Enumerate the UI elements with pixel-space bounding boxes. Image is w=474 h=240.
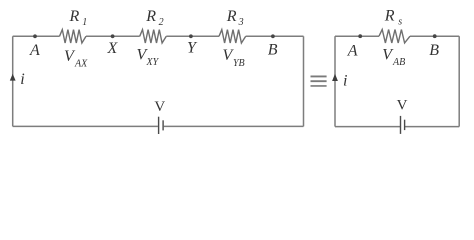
svg-text:i: i <box>20 71 24 88</box>
node A right <box>358 34 362 38</box>
wire right-circuit bottom left <box>335 126 400 128</box>
svg-text:A: A <box>347 43 358 60</box>
wire left-circuit bottom right <box>164 125 304 127</box>
svg-text:R: R <box>384 7 395 24</box>
wire left-circuit left vertical <box>12 36 14 126</box>
svg-text:i: i <box>343 73 347 90</box>
wire left-circuit right vertical <box>303 36 305 126</box>
equivalence symbol <box>311 76 327 86</box>
resistor R3 <box>219 30 246 43</box>
wire left-circuit top segment X <box>86 35 140 37</box>
svg-text:B: B <box>429 42 439 59</box>
wire right-circuit left vertical <box>334 36 336 126</box>
resistor R2 <box>140 30 167 43</box>
current arrow i left circuit <box>10 74 16 81</box>
svg-text:3: 3 <box>238 17 244 28</box>
svg-text:1: 1 <box>82 17 87 28</box>
current arrow i right circuit <box>332 74 338 81</box>
label R2 <box>145 8 163 28</box>
label Rs <box>384 7 403 27</box>
label VXY <box>137 47 160 69</box>
wire right-circuit right vertical <box>458 36 460 126</box>
svg-text:s: s <box>398 16 402 27</box>
label R1 <box>69 8 88 28</box>
svg-text:AB: AB <box>392 57 405 68</box>
label VAB <box>382 47 405 68</box>
svg-text:YB: YB <box>233 58 245 69</box>
svg-text:XY: XY <box>146 57 160 68</box>
svg-text:AX: AX <box>74 58 88 69</box>
node B <box>271 34 275 38</box>
label VYB <box>223 47 245 69</box>
wire right-circuit bottom right <box>405 126 459 128</box>
svg-text:R: R <box>145 8 156 25</box>
resistor R1 <box>60 30 87 43</box>
wire right-circuit top segment A <box>335 35 379 37</box>
wire left-circuit top segment A <box>13 35 60 37</box>
node A <box>33 34 37 38</box>
svg-text:R: R <box>69 8 80 25</box>
wire right-circuit top segment B <box>410 35 459 37</box>
node Y <box>189 34 193 38</box>
wire left-circuit bottom left <box>13 125 158 127</box>
svg-text:2: 2 <box>159 17 164 28</box>
svg-text:B: B <box>268 42 278 59</box>
svg-text:R: R <box>226 8 237 25</box>
svg-text:V: V <box>154 99 165 115</box>
svg-text:X: X <box>107 40 119 57</box>
wire left-circuit top segment B <box>246 35 304 37</box>
node X <box>111 34 115 38</box>
label R3 <box>226 8 244 28</box>
wire left-circuit top segment Y <box>166 35 219 37</box>
label VAX <box>64 48 88 70</box>
node B right <box>433 34 437 38</box>
battery V left circuit <box>159 117 164 134</box>
svg-text:A: A <box>29 42 40 59</box>
svg-text:V: V <box>397 98 408 114</box>
battery V right circuit <box>401 116 405 134</box>
resistor Rs <box>379 30 410 43</box>
